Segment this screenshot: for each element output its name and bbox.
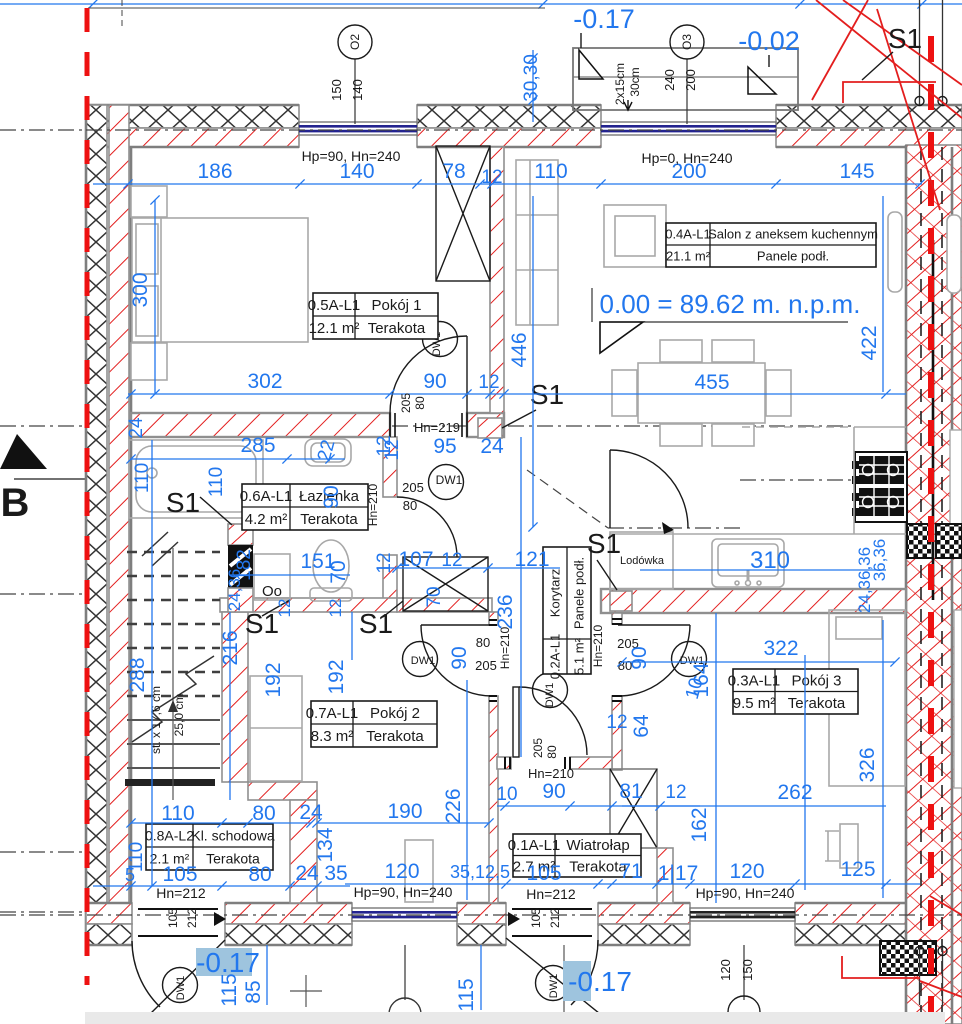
table pokoj3 [728, 669, 858, 714]
svg-text:2x15cm: 2x15cm [613, 63, 627, 105]
svg-text:226: 226 [442, 788, 465, 823]
svg-text:0.3A-L1: 0.3A-L1 [728, 673, 781, 690]
svg-text:Hp=90, Hn=240: Hp=90, Hn=240 [354, 884, 453, 900]
svg-text:71: 71 [619, 860, 642, 883]
thin top reference line [88, 7, 545, 9]
table wiatrolap [508, 834, 641, 877]
door salon->corridor leaf [609, 450, 611, 528]
top wall insulation hatch [776, 105, 962, 128]
svg-text:S1: S1 [245, 608, 279, 639]
bottom wall insulation hatch [457, 924, 506, 945]
axis line left y852 [0, 851, 88, 853]
bottom wall masonry hatch [225, 903, 352, 924]
stair center line [172, 548, 174, 800]
top wall outline [86, 105, 962, 147]
party wall edges [906, 145, 952, 1024]
svg-text:Lodówka: Lodówka [620, 555, 665, 567]
svg-text:B: B [1, 481, 30, 525]
chair left [612, 370, 637, 416]
svg-text:200: 200 [683, 69, 698, 91]
bed pokoj1 [132, 218, 308, 342]
door pokoj1->corridor arc [390, 336, 467, 413]
S1 leader 4 [502, 410, 536, 428]
left wall outline [86, 105, 131, 945]
stair last tread black [125, 779, 215, 786]
door bathroom arc [397, 497, 457, 557]
dim 262 line [622, 805, 886, 807]
svg-text:Hp=0, Hn=240: Hp=0, Hn=240 [641, 150, 732, 166]
red corner top right [843, 82, 936, 103]
svg-text:105: 105 [166, 908, 180, 928]
red diag 2 [812, 0, 868, 100]
chair top1 [660, 340, 702, 362]
svg-text:Hn=210: Hn=210 [498, 626, 512, 669]
svg-text:35,12,5: 35,12,5 [450, 862, 510, 882]
svg-text:Pokój 2: Pokój 2 [370, 705, 420, 722]
win pokoj3 axis line [743, 945, 745, 1000]
section line S1 jog [527, 470, 608, 528]
svg-text:Hn=212: Hn=212 [526, 886, 576, 902]
svg-text:12: 12 [478, 372, 499, 393]
jamb ticks corr door [505, 757, 570, 769]
jamb ticks pokoj3 door [612, 619, 622, 701]
terrace step tri 1 [579, 50, 603, 79]
jamb ticks pokoj2 door [489, 620, 497, 701]
axis circle O2 [338, 25, 372, 59]
svg-text:24: 24 [480, 435, 504, 458]
terrace step arrow [624, 100, 632, 110]
axis right vlines bottom [920, 945, 943, 1005]
svg-text:80: 80 [413, 396, 427, 410]
svg-text:Panele podł.: Panele podł. [572, 557, 587, 629]
svg-text:Terakota: Terakota [368, 320, 426, 337]
win pokoj2 axis line [404, 945, 406, 1000]
svg-text:Hn=210: Hn=210 [591, 624, 605, 667]
svg-text:80: 80 [403, 498, 417, 513]
mirror unit kitchen cutout [950, 430, 962, 530]
svg-text:90: 90 [628, 646, 651, 669]
party wall dashed line a [920, 147, 922, 1024]
washbasin top [305, 439, 351, 466]
desk pokoj2 [405, 840, 433, 902]
wall bathroom right lower [383, 555, 397, 600]
svg-text:36,36: 36,36 [870, 539, 889, 582]
svg-text:164: 164 [690, 662, 713, 697]
S1 leader 3 [383, 601, 403, 617]
svg-text:12: 12 [374, 552, 395, 573]
svg-text:0.6A-L1: 0.6A-L1 [240, 488, 293, 505]
svg-text:90: 90 [320, 485, 343, 508]
top wall masonry hatch [776, 128, 962, 147]
svg-text:-0.17: -0.17 [573, 4, 635, 34]
svg-text:115: 115 [455, 978, 478, 1011]
chair top2 [712, 340, 754, 362]
wall pokoj1/salon [490, 147, 504, 413]
bottom wall masonry hatch [944, 903, 962, 924]
wall schodowa/pokoj2 jog [248, 782, 317, 800]
svg-text:Terakota: Terakota [300, 511, 358, 528]
axis right circles top [915, 97, 924, 106]
dim line bottom right [466, 883, 920, 885]
svg-text:134: 134 [314, 827, 337, 862]
mirror unit bed cutout [954, 610, 962, 788]
bathtub [129, 440, 263, 518]
red box above shaft [228, 524, 253, 545]
svg-text:322: 322 [763, 637, 798, 660]
wall wiatrolap/pokoj3 [657, 848, 673, 903]
level -0.17 left hl [196, 948, 252, 976]
door marker DW1 bathroom [429, 465, 464, 500]
wall corridor south horiz [397, 598, 492, 612]
svg-text:115: 115 [218, 973, 241, 1006]
svg-text:192: 192 [262, 662, 285, 697]
table pokoj2 [306, 701, 437, 747]
bottom wall masonry hatch [795, 903, 930, 924]
svg-text:Terakota: Terakota [366, 728, 424, 745]
svg-text:145: 145 [839, 160, 874, 183]
wall schodowa/pokoj2 vert [290, 800, 317, 903]
dim line 310 [640, 569, 886, 571]
svg-text:70: 70 [424, 586, 445, 607]
table korytarz rotated [543, 547, 591, 679]
svg-text:12.1 m²: 12.1 m² [309, 320, 360, 337]
level -0.17 mid hl [563, 961, 591, 1001]
svg-text:455: 455 [694, 371, 729, 394]
svg-text:205: 205 [531, 738, 545, 758]
wall pokoj1/bathroom [131, 413, 390, 437]
svg-text:262: 262 [777, 781, 812, 804]
svg-text:8.3 m²: 8.3 m² [311, 728, 354, 745]
red diag in bottom wall [930, 896, 962, 915]
party wall black core [932, 240, 935, 600]
svg-text:Hn=210: Hn=210 [366, 483, 380, 526]
svg-text:110: 110 [206, 467, 227, 497]
washer [254, 554, 290, 600]
svg-text:24: 24 [126, 417, 147, 439]
door corridor->pokoj2 arc [421, 624, 492, 626]
svg-text:205: 205 [399, 393, 413, 413]
svg-text:85: 85 [242, 980, 265, 1003]
axis right vlines top [920, 0, 943, 106]
svg-text:162: 162 [688, 807, 711, 842]
radiator mirror unit [947, 215, 961, 293]
door marker DW1 entrance mid [536, 966, 571, 1001]
B triangle [0, 434, 47, 469]
bottom wall outline [86, 903, 962, 945]
dim 288 line [151, 440, 153, 886]
S1 leader 6 [862, 52, 893, 80]
dim 192 line [351, 612, 353, 660]
svg-text:80: 80 [545, 745, 559, 759]
svg-text:205: 205 [402, 480, 424, 495]
dim line corr [383, 567, 560, 569]
section line S1 mid [608, 527, 742, 529]
svg-text:Hn=210: Hn=210 [528, 766, 574, 781]
svg-text:S1: S1 [166, 487, 200, 518]
bed pokoj3 [829, 610, 905, 786]
pier right of pokoj1 door [467, 413, 504, 437]
wall pokoj2 right lower [489, 696, 498, 903]
dim row C line [131, 458, 345, 460]
svg-text:30,30: 30,30 [521, 54, 542, 102]
party wall hatch [906, 145, 962, 1024]
S1 leader 2 [262, 600, 290, 616]
fridge [610, 532, 673, 589]
stair arrow [168, 700, 178, 712]
wardrobe X corridor [403, 557, 488, 611]
dim line schod [131, 822, 311, 824]
wall stairs/pokoj2 [222, 612, 248, 782]
svg-text:4.2 m²: 4.2 m² [245, 511, 288, 528]
dim 326 line [882, 620, 884, 898]
red diag 3 [877, 9, 940, 210]
top wall masonry hatch [86, 128, 299, 147]
axis stub top left [121, 0, 123, 26]
door marker DW1 wiatrolap [533, 673, 568, 708]
table lazienka [240, 484, 368, 530]
dining table [638, 363, 765, 423]
axis O2 line [354, 59, 356, 124]
kitchen upper cabinet dashed [742, 426, 854, 428]
svg-text:186: 186 [197, 160, 232, 183]
svg-text:105: 105 [526, 862, 561, 885]
toilet [313, 540, 349, 592]
dim 236 line [520, 437, 522, 757]
wall pokoj2 right [489, 612, 498, 625]
dim 85 line [266, 945, 268, 1005]
svg-text:21.1 m²: 21.1 m² [666, 249, 711, 264]
red dashed line right [928, 36, 934, 1024]
svg-text:70: 70 [327, 560, 350, 583]
dim row B line [128, 393, 906, 395]
bottom wall insulation hatch [944, 924, 962, 945]
terrace step tri 2 [748, 67, 776, 94]
dim line bottom mid [345, 883, 500, 885]
svg-text:DW1: DW1 [544, 683, 556, 707]
axis line left y130 stub [0, 129, 86, 131]
chair right [766, 370, 791, 416]
party wall crosshatch overlay [906, 145, 962, 1024]
svg-text:9.5 m²: 9.5 m² [733, 695, 776, 712]
svg-text:302: 302 [247, 370, 282, 393]
svg-text:Hn=219: Hn=219 [414, 420, 460, 435]
svg-text:12: 12 [481, 167, 502, 188]
svg-text:Hp=90, Hn=240: Hp=90, Hn=240 [696, 885, 795, 901]
svg-text:120: 120 [729, 860, 764, 883]
svg-text:DW1: DW1 [411, 655, 435, 667]
chair bottom1 [660, 424, 702, 446]
dim 115b line [480, 945, 482, 1010]
terrace outline [573, 48, 798, 110]
door marker DW1 pokoj2 [403, 642, 438, 677]
bottom wall insulation hatch [225, 924, 352, 945]
svg-text:12: 12 [441, 550, 462, 571]
svg-text:Panele podł.: Panele podł. [757, 249, 829, 264]
axis line left y912 [0, 911, 88, 913]
svg-text:Oo: Oo [262, 583, 282, 600]
axis line y915 over wall [0, 914, 962, 916]
window W3 pokoj2 bottom [352, 908, 457, 921]
svg-text:12: 12 [374, 435, 395, 456]
svg-text:120: 120 [718, 959, 733, 981]
svg-text:Pokój 1: Pokój 1 [371, 297, 421, 314]
bottom wall masonry hatch [457, 903, 506, 924]
left wall insulation hatch [86, 105, 107, 945]
kitchen counter side [854, 427, 906, 534]
svg-text:0.4A-L1: 0.4A-L1 [665, 227, 711, 242]
dim 190 line [317, 822, 489, 824]
svg-text:12: 12 [326, 599, 345, 618]
svg-text:Hp=90, Hn=240: Hp=90, Hn=240 [302, 148, 401, 164]
wardrobe X pokoj1 [436, 146, 490, 281]
svg-text:24,36: 24,36 [225, 569, 244, 612]
wall corridor/pokoj3 vert [612, 613, 622, 624]
bottom wall masonry hatch [86, 903, 132, 924]
svg-text:212: 212 [548, 908, 562, 928]
svg-text:25,0 cm: 25,0 cm [172, 694, 186, 737]
door corridor->wiatrolap arc [519, 687, 587, 755]
door corridor->wiatrolap leaf [513, 687, 519, 757]
table schodowa [145, 824, 275, 870]
gray strip [85, 1012, 945, 1024]
svg-text:st. x 17,6 cm: st. x 17,6 cm [149, 686, 163, 754]
S1 pier salon [478, 418, 502, 438]
svg-text:0.00 = 89.62 m. n.p.m.: 0.00 = 89.62 m. n.p.m. [600, 289, 861, 319]
vent block kitchen wall [855, 452, 907, 522]
section line S1 kitchen [740, 479, 906, 481]
entrance door left leaf [148, 940, 225, 1016]
stair treads [127, 552, 220, 696]
wall corridor/pokoj3 vert lower [612, 696, 622, 770]
door salon->corridor arc [610, 450, 688, 528]
svg-text:Korytarz: Korytarz [548, 569, 563, 617]
top wall masonry hatch [417, 128, 601, 147]
svg-text:80: 80 [252, 802, 275, 825]
table salon [665, 223, 878, 267]
svg-text:Kl. schodowa: Kl. schodowa [191, 828, 274, 844]
svg-text:125: 125 [840, 858, 875, 881]
svg-text:Pokój 3: Pokój 3 [791, 673, 841, 690]
axis O3 line [686, 59, 688, 124]
entrance mid vline [563, 945, 565, 1024]
section line S1 left [131, 425, 855, 427]
cross mark bottom [290, 975, 322, 1007]
svg-text:35: 35 [324, 862, 347, 885]
svg-text:12: 12 [275, 599, 294, 618]
svg-text:446: 446 [508, 332, 531, 367]
win pokoj3 circle [728, 996, 760, 1024]
svg-text:O3: O3 [680, 34, 694, 50]
svg-text:S1: S1 [587, 528, 621, 559]
dim line corr2 [497, 805, 700, 807]
red diag bottom right [920, 981, 962, 997]
red diag 1 [843, 0, 962, 85]
left wall masonry hatch [109, 105, 129, 945]
svg-text:80: 80 [248, 863, 271, 886]
red box below shaft [228, 588, 253, 612]
party wall dashed line b [941, 147, 943, 1024]
dim 226 line [466, 680, 468, 900]
door marker DW1 pokoj3 [672, 642, 707, 677]
svg-text:80: 80 [476, 635, 490, 650]
svg-text:S1: S1 [888, 23, 922, 54]
svg-text:-0.17: -0.17 [568, 966, 632, 997]
svg-text:24: 24 [299, 801, 323, 824]
svg-text:140: 140 [350, 79, 365, 101]
svg-text:-0.02: -0.02 [738, 26, 800, 56]
svg-text:0.5A-L1: 0.5A-L1 [308, 297, 361, 314]
wall corridor/wiatrolap horiz [497, 757, 511, 769]
svg-text:240: 240 [662, 69, 677, 91]
svg-text:DW1: DW1 [548, 974, 560, 998]
red diag long [816, 0, 962, 118]
axis right circles bottom [915, 947, 924, 956]
axis circle O3 [670, 25, 704, 59]
svg-text:150: 150 [740, 959, 755, 981]
sofa salon [516, 160, 558, 325]
svg-text:30cm: 30cm [628, 67, 642, 96]
window W2 salon terrace door [601, 122, 776, 135]
svg-text:Wiatrołap: Wiatrołap [566, 837, 629, 854]
salon level triangle [600, 322, 643, 353]
stove grid [852, 456, 904, 516]
door corridor->pokoj3 arc [618, 624, 690, 626]
svg-text:95: 95 [433, 435, 456, 458]
svg-text:90: 90 [542, 780, 565, 803]
svg-text:110: 110 [534, 160, 567, 183]
svg-text:205: 205 [475, 658, 497, 673]
door marker DW1 pokoj1 [423, 322, 458, 357]
svg-text:0.2A-L1: 0.2A-L1 [548, 634, 563, 680]
svg-text:0.1A-L1: 0.1A-L1 [508, 837, 561, 854]
dim row A line [93, 183, 922, 185]
dim line schod2 [93, 885, 350, 887]
svg-text:5.1 m²: 5.1 m² [572, 637, 587, 675]
svg-text:Terakota: Terakota [788, 695, 846, 712]
shaft wiatrolap X-box [610, 769, 657, 848]
axis line y130 over wall [86, 129, 962, 131]
stair break zigzag [132, 656, 214, 742]
chimney vents bottom right [880, 941, 936, 975]
svg-text:105: 105 [529, 908, 543, 928]
dim 164 line [715, 613, 717, 903]
stair S1 slashes [142, 532, 178, 566]
jamb ticks pokoj1 door [390, 413, 467, 437]
svg-text:90: 90 [448, 646, 471, 669]
svg-text:300: 300 [129, 272, 152, 307]
bottom wall insulation hatch [86, 924, 132, 945]
top wall insulation hatch [417, 105, 601, 128]
svg-text:110: 110 [161, 802, 194, 825]
armchair table salon [604, 205, 666, 267]
dim 216 line [229, 612, 231, 800]
wardrobe pokoj2 [250, 676, 302, 781]
svg-text:190: 190 [387, 800, 422, 823]
bottom wall insulation hatch [598, 924, 690, 945]
axis line B lower [14, 478, 88, 480]
nightstand below bed [131, 343, 167, 380]
red pier kitchen [610, 591, 632, 611]
svg-text:422: 422 [858, 325, 881, 360]
window W4 wiatrolap side [690, 908, 795, 921]
desk pokoj3 [840, 824, 858, 868]
axis line left y594 [0, 593, 88, 595]
entrance door mid leaf [506, 938, 610, 1022]
svg-text:212: 212 [185, 908, 199, 928]
wall bathroom right [383, 437, 397, 497]
wall corridor/wiatrolap horiz2 [570, 757, 612, 769]
svg-text:10: 10 [496, 784, 517, 805]
